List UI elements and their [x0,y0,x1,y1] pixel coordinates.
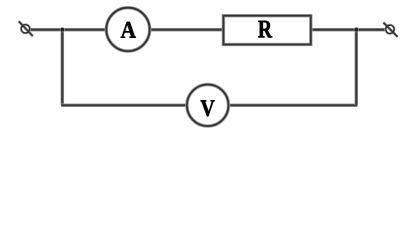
wire right vertical [355,30,359,106]
resistor R [223,16,310,45]
label R [258,21,272,38]
label V [201,100,215,116]
voltmeter V [187,85,229,127]
terminal left [19,21,33,36]
wire top [30,28,385,32]
ammeter A [106,8,149,51]
wire bottom [61,104,357,108]
junction right [354,27,359,32]
label A [121,22,136,38]
terminal right [383,23,397,37]
wire left vertical [61,30,65,106]
junction left [60,27,65,32]
